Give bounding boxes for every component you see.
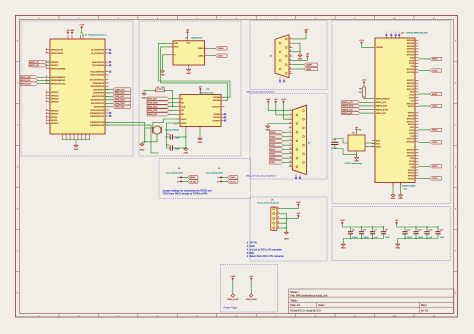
power +5V (J6) bbox=[275, 101, 277, 104]
svg-text:GPIO6: GPIO6 bbox=[408, 176, 415, 178]
svg-text:11: 11 bbox=[433, 316, 435, 318]
global label TXD0 (J1) bbox=[29, 60, 50, 63]
svg-text:SPI0_SCK: SPI0_SCK bbox=[115, 103, 126, 105]
svg-text:GPIO14/TXD: GPIO14/TXD bbox=[51, 50, 64, 52]
wires DB15 power pins bbox=[268, 103, 289, 119]
svg-text:GND: GND bbox=[341, 248, 346, 250]
section box Raspberry Pi bbox=[21, 21, 133, 156]
no-connect J1 GCLK0 bbox=[109, 71, 111, 73]
svg-text:CE1/GPIO7: CE1/GPIO7 bbox=[93, 89, 105, 91]
svg-text:TXD2: TXD2 bbox=[270, 154, 276, 156]
svg-text:GND: GND bbox=[160, 75, 165, 77]
svg-text:SMPS_INT: SMPS_INT bbox=[342, 113, 353, 115]
svg-text:+24V: +24V bbox=[230, 276, 235, 278]
svg-text:+5v: +5v bbox=[355, 127, 358, 129]
svg-text:PWR_FLAG: PWR_FLAG bbox=[227, 298, 238, 301]
svg-text:CANL: CANL bbox=[218, 54, 224, 57]
svg-text:C13: C13 bbox=[418, 230, 421, 232]
ground (U3 a) bbox=[391, 193, 395, 197]
power +24V (J2) bbox=[305, 31, 307, 34]
svg-text:GND: GND bbox=[398, 198, 403, 200]
svg-text:GPIO18: GPIO18 bbox=[407, 139, 415, 141]
svg-text:8: 8 bbox=[315, 18, 316, 20]
svg-text:INT/GPIO6: INT/GPIO6 bbox=[94, 107, 105, 109]
global label CANL (J2) bbox=[293, 67, 318, 70]
svg-text:TJA1051T3: TJA1051T3 bbox=[191, 37, 203, 40]
global label RXD3 (J6) bbox=[270, 156, 289, 159]
no-connect J1 GPIO12 bbox=[109, 112, 111, 114]
ground (J1) bbox=[74, 144, 78, 148]
global label RXD2 (J6) bbox=[270, 148, 289, 151]
svg-text:DB9_Female_MountingHoles: DB9_Female_MountingHoles bbox=[246, 90, 275, 93]
no-connect U2 CLKOUT bbox=[224, 120, 226, 122]
svg-text:SMPS_INT: SMPS_INT bbox=[376, 113, 387, 115]
global label SPI0_SDO (J1) bbox=[105, 98, 130, 101]
svg-text:Id: 1/1: Id: 1/1 bbox=[421, 308, 429, 312]
wire U1 TXD to U2 TXCAN bbox=[158, 43, 230, 97]
svg-text:GPIO32: GPIO32 bbox=[407, 52, 415, 54]
svg-text:PWM1/GPIO13: PWM1/GPIO13 bbox=[90, 116, 105, 118]
svg-text:GPIO22: GPIO22 bbox=[51, 92, 59, 94]
svg-text:9: 9 bbox=[354, 18, 355, 20]
svg-text:TX0RTS: TX0RTS bbox=[212, 120, 220, 122]
svg-text:Conn_01x02_Male: Conn_01x02_Male bbox=[206, 173, 224, 175]
svg-text:Crystal_GND24: Crystal_GND24 bbox=[165, 129, 180, 132]
wires crystal to U2 OSC bbox=[145, 119, 187, 149]
wire U3 LDOEN +3.3V bbox=[359, 40, 371, 48]
svg-text:TXD3: TXD3 bbox=[432, 178, 438, 180]
ground (U2) bbox=[198, 129, 203, 144]
svg-text:RTS2: RTS2 bbox=[409, 133, 415, 135]
svg-text:2: 2 bbox=[217, 181, 218, 183]
wire J3 ground pins bbox=[280, 214, 287, 231]
svg-text:GPIO1: GPIO1 bbox=[408, 170, 415, 172]
svg-text:5: 5 bbox=[196, 18, 197, 20]
svg-text:SPI0_SDO: SPI0_SDO bbox=[147, 102, 158, 104]
svg-text:SMPS_EN/CDT: SMPS_EN/CDT bbox=[376, 98, 391, 100]
svg-text:SDI0/GPIO9: SDI0/GPIO9 bbox=[93, 83, 105, 85]
svg-text:RXD0: RXD0 bbox=[189, 177, 195, 179]
svg-text:SMPS_SDA: SMPS_SDA bbox=[376, 105, 388, 108]
svg-text:10: 10 bbox=[290, 148, 292, 150]
svg-text:SMPS_SCL: SMPS_SCL bbox=[342, 102, 354, 104]
svg-text:GPIO26: GPIO26 bbox=[407, 72, 415, 74]
svg-text:+3.3V: +3.3V bbox=[79, 25, 85, 27]
svg-text:1: 1 bbox=[391, 32, 392, 34]
global label RXD2 (U3) bbox=[418, 128, 441, 131]
svg-text:1. Return from 24V to 5V conve: 1. Return from 24V to 5V converter bbox=[247, 255, 284, 258]
controller U2 MCP2515 bbox=[180, 94, 221, 126]
svg-text:GPIO27: GPIO27 bbox=[407, 80, 415, 82]
title block bbox=[289, 289, 454, 314]
svg-text:UART_RX: UART_RX bbox=[29, 64, 39, 67]
global label CANL bbox=[208, 54, 227, 57]
svg-text:+3.3V: +3.3V bbox=[340, 220, 346, 222]
svg-text:+3.3v: +3.3v bbox=[359, 40, 364, 42]
svg-text:SDA1/GPIO2: SDA1/GPIO2 bbox=[92, 61, 105, 64]
svg-text:TXD1: TXD1 bbox=[270, 145, 276, 147]
svg-text:C6: C6 bbox=[363, 230, 365, 232]
wires U5 bbox=[335, 131, 375, 155]
svg-text:TX_TX: TX_TX bbox=[229, 181, 236, 183]
svg-text:MOSI/GPIO10: MOSI/GPIO10 bbox=[91, 100, 105, 102]
no-connect J1 ID_SD bbox=[109, 49, 111, 51]
svg-text:TXD3: TXD3 bbox=[270, 162, 276, 164]
global label CANH (J2) bbox=[293, 63, 318, 66]
svg-text:13: 13 bbox=[290, 161, 292, 163]
ic U5 bbox=[348, 135, 365, 151]
J1 left pins bbox=[46, 48, 67, 125]
global label SPI0_SDO (J1) bbox=[21, 76, 51, 79]
no-connect U2 RX0BF bbox=[224, 113, 226, 115]
svg-text:GND: GND bbox=[284, 238, 289, 240]
svg-text:CANH: CANH bbox=[198, 47, 204, 50]
svg-text:C7: C7 bbox=[374, 230, 376, 232]
svg-text:3: 3 bbox=[118, 18, 119, 20]
wire J1 PWM pins bbox=[105, 122, 159, 152]
svg-text:RXD1: RXD1 bbox=[270, 141, 276, 143]
svg-text:TXD0: TXD0 bbox=[270, 136, 276, 138]
svg-text:LDOEN: LDOEN bbox=[376, 47, 383, 49]
svg-text:C12: C12 bbox=[407, 230, 410, 232]
svg-text:GPIO26: GPIO26 bbox=[51, 110, 59, 112]
svg-text:GPIO19: GPIO19 bbox=[407, 142, 415, 144]
svg-text:GPIO25: GPIO25 bbox=[51, 102, 59, 104]
svg-text:PWM1/GPIO19: PWM1/GPIO19 bbox=[90, 125, 105, 127]
wire J3 pin3 +5V bbox=[280, 213, 300, 218]
svg-text:SDO0/GPIO10: SDO0/GPIO10 bbox=[90, 86, 104, 88]
svg-text:CANL: CANL bbox=[198, 54, 204, 57]
svg-text:3: 3 bbox=[118, 316, 119, 318]
svg-text:4: 4 bbox=[157, 316, 158, 318]
svg-text:MODULE_GND: MODULE_GND bbox=[402, 186, 416, 188]
connector J5 Conn_01x02_Male bbox=[206, 168, 238, 184]
ground (U5) bbox=[354, 155, 359, 163]
svg-text:GPIO15/RXD: GPIO15/RXD bbox=[51, 53, 64, 55]
svg-text:SPI0_CS1: SPI0_CS1 bbox=[115, 107, 126, 109]
global label SPI0_SCK (J1) bbox=[105, 102, 130, 105]
svg-text:1: 1 bbox=[177, 177, 178, 179]
ground (U3 b) bbox=[398, 193, 402, 197]
svg-text:GPIO34: GPIO34 bbox=[407, 46, 415, 48]
ground (crystal right) bbox=[184, 147, 188, 151]
global label RXD1 (J6) bbox=[270, 139, 289, 142]
section box ESP32 MCU bbox=[332, 21, 451, 204]
svg-text:CTS0: CTS0 bbox=[409, 60, 415, 62]
svg-text:RXD0: RXD0 bbox=[270, 132, 276, 134]
global label SPI0_CS0 (J1) bbox=[105, 91, 130, 94]
svg-text:GPIO39: GPIO39 bbox=[407, 43, 415, 45]
svg-text:CLKOUT: CLKOUT bbox=[212, 107, 221, 109]
U3 right pins bbox=[407, 40, 419, 181]
svg-text:SCLK/GPIO11: SCLK/GPIO11 bbox=[91, 103, 105, 105]
svg-text:1of2: 1of2 bbox=[404, 189, 407, 191]
capacitor group C5-C8 (+3.3V) bbox=[340, 220, 391, 250]
global label SMPS_INT (U3) bbox=[342, 111, 372, 114]
svg-text:TXCAN: TXCAN bbox=[213, 96, 220, 99]
no-connect J6 mounting holes bbox=[295, 174, 301, 179]
svg-text:1: 1 bbox=[39, 316, 40, 318]
svg-text:CAN0_INT: CAN0_INT bbox=[147, 113, 158, 116]
section box power flags bbox=[221, 265, 278, 313]
ground (U1 S pin) bbox=[160, 55, 169, 77]
svg-text:GPIO22: GPIO22 bbox=[407, 152, 415, 154]
svg-text:GND: GND bbox=[184, 153, 189, 155]
svg-text:SPI0_SDI: SPI0_SDI bbox=[147, 99, 157, 101]
svg-text:STO2 3 addressing: STO2 3 addressing bbox=[345, 163, 362, 165]
global label SPI0_SDI (J1) bbox=[21, 79, 51, 82]
svg-text:PWM0/GPIO18: PWM0/GPIO18 bbox=[90, 122, 105, 124]
U3 top pins bbox=[386, 32, 400, 38]
svg-text:ID_SC/GPIO1: ID_SC/GPIO1 bbox=[91, 53, 105, 55]
svg-text:GPIO36: GPIO36 bbox=[407, 40, 415, 42]
global label SPI0_CS1 (J1) bbox=[105, 105, 130, 108]
no-connect J1 SDA1 bbox=[109, 61, 111, 63]
power +5V (J1) bbox=[67, 32, 69, 35]
svg-text:RTS0: RTS0 bbox=[409, 63, 415, 65]
global label TXD3 (U3) bbox=[418, 177, 441, 180]
svg-text:GPIO0: GPIO0 bbox=[408, 113, 415, 115]
no-connect J1 GPIO13 bbox=[109, 115, 111, 117]
power +3.3V (J6) bbox=[282, 101, 284, 104]
ground (R1) bbox=[142, 92, 146, 96]
svg-text:GND: GND bbox=[391, 198, 396, 200]
svg-text:GPIO24: GPIO24 bbox=[51, 99, 59, 101]
svg-text:SO: SO bbox=[181, 102, 184, 104]
capacitor C11 100nF bbox=[331, 139, 338, 150]
svg-text:GPIO35: GPIO35 bbox=[407, 49, 415, 51]
svg-text:GPIO2: GPIO2 bbox=[408, 106, 415, 108]
capacitor group C12-C15 (+5V) bbox=[395, 220, 445, 250]
J1 right pins bbox=[90, 50, 109, 127]
svg-text:GPIO3: GPIO3 bbox=[408, 173, 415, 175]
svg-text:TX_RX: TX_RX bbox=[189, 181, 196, 183]
svg-text:4: 4 bbox=[157, 18, 158, 20]
svg-text:SPI0_SCK: SPI0_SCK bbox=[21, 83, 32, 85]
svg-text:GPIO33: GPIO33 bbox=[407, 54, 415, 56]
svg-text:Conn_01x02_Male: Conn_01x02_Male bbox=[166, 173, 184, 175]
svg-text:GPIO21: GPIO21 bbox=[407, 149, 415, 151]
svg-text:OSC1: OSC1 bbox=[181, 119, 187, 121]
svg-text:C14: C14 bbox=[429, 230, 432, 232]
svg-text:+24V: +24V bbox=[304, 29, 309, 31]
svg-text:PWM0/GPIO12: PWM0/GPIO12 bbox=[90, 113, 105, 115]
global label RXD0 (U3) bbox=[418, 57, 441, 60]
svg-text:Title:: Title: bbox=[290, 298, 297, 302]
svg-text:SPI0_CS0: SPI0_CS0 bbox=[115, 93, 126, 95]
svg-text:CMD: CMD bbox=[376, 146, 381, 148]
svg-text:1: 1 bbox=[217, 177, 218, 179]
svg-text:SCL1/GPIO3: SCL1/GPIO3 bbox=[92, 65, 105, 67]
svg-text:C8: C8 bbox=[385, 230, 387, 232]
capacitor C4 15pF bbox=[166, 145, 180, 151]
svg-text:GPIO23: GPIO23 bbox=[407, 155, 415, 157]
svg-text:8: 8 bbox=[315, 316, 316, 318]
wire J3 pin1 +24V bbox=[280, 202, 301, 209]
svg-text:CTS1: CTS1 bbox=[409, 95, 415, 97]
svg-text:GPIO15: GPIO15 bbox=[407, 103, 415, 105]
wire U1 RXD to U2 RXCAN bbox=[161, 47, 228, 101]
svg-text:RXD2: RXD2 bbox=[270, 149, 276, 151]
section box DB9_Female_MountingHoles bbox=[250, 21, 327, 90]
svg-text:SPI0_SCK: SPI0_SCK bbox=[147, 106, 158, 108]
svg-text:RXD3: RXD3 bbox=[432, 166, 438, 168]
module U3 ESP32-WROOM-32E bbox=[375, 38, 415, 183]
connector J2 DB9 female bbox=[271, 35, 293, 78]
svg-text:TXD: TXD bbox=[174, 43, 179, 45]
svg-text:CTS2: CTS2 bbox=[409, 130, 415, 132]
svg-text:RXD: RXD bbox=[174, 47, 179, 49]
section box jumpers bbox=[159, 159, 251, 199]
global label SMPS_TXL (U3) bbox=[342, 108, 372, 111]
svg-text:1: 1 bbox=[39, 18, 40, 20]
svg-text:GCLK2/GPIO6: GCLK2/GPIO6 bbox=[90, 110, 104, 112]
connector J6 DB15 female bbox=[289, 105, 311, 174]
resistor R5 bbox=[358, 80, 371, 99]
svg-text:GND: GND bbox=[74, 149, 79, 151]
svg-text:OSC2: OSC2 bbox=[181, 123, 187, 125]
svg-text:GPIO25: GPIO25 bbox=[407, 69, 415, 71]
svg-text:Sheet: /: Sheet: / bbox=[290, 290, 299, 294]
svg-text:GPIO16: GPIO16 bbox=[51, 62, 59, 64]
power flag +5V bbox=[246, 276, 257, 301]
svg-text:RTS1: RTS1 bbox=[409, 97, 415, 99]
svg-text:2: 2 bbox=[78, 316, 79, 318]
global label SPI0_SDI (U2) bbox=[147, 97, 177, 100]
svg-text:SCK: SCK bbox=[181, 106, 186, 108]
global label SMPS_SCL (U3) bbox=[342, 101, 372, 104]
svg-text:Screw_Terminal_01x05: Screw_Terminal_01x05 bbox=[257, 202, 279, 205]
power flag +24V bbox=[227, 276, 238, 301]
global label TXD2 (J6) bbox=[270, 152, 289, 155]
no-connect J2 mounting holes bbox=[279, 77, 285, 82]
svg-text:GPIO19/MISO1: GPIO19/MISO1 bbox=[51, 77, 66, 79]
connector J4 Conn_01x02_Male bbox=[166, 168, 198, 184]
global label CAN0_INT (U2) bbox=[147, 113, 177, 116]
svg-text:GPIO14: GPIO14 bbox=[407, 83, 415, 85]
section box DB15_Female_MountingHoles bbox=[250, 94, 327, 180]
svg-text:R6: R6 bbox=[359, 130, 361, 132]
svg-text:6: 6 bbox=[236, 316, 237, 318]
svg-text:GPIO4: GPIO4 bbox=[408, 115, 415, 117]
svg-text:SMPS_SCL: SMPS_SCL bbox=[376, 102, 388, 104]
wire DB15 ground pin bbox=[268, 124, 289, 125]
global label TXD0 (U3) bbox=[418, 69, 441, 72]
svg-text:RXD2: RXD2 bbox=[432, 130, 438, 132]
svg-text:6: 6 bbox=[236, 18, 237, 20]
svg-text:GND: GND bbox=[198, 142, 203, 144]
global label SPI0_SCK (U2) bbox=[147, 105, 177, 108]
svg-text:RXCAN: RXCAN bbox=[213, 99, 221, 102]
power +5V (U5) bbox=[355, 129, 357, 132]
svg-text:2: 2 bbox=[78, 18, 79, 20]
transceiver U1 TJA1051T3 bbox=[173, 41, 205, 65]
svg-text:11: 11 bbox=[433, 18, 435, 20]
U2 pins bbox=[177, 91, 225, 130]
svg-text:SPI0_CS0: SPI0_CS0 bbox=[147, 110, 158, 112]
svg-text:ESP32-WROOM-32D: ESP32-WROOM-32D bbox=[407, 33, 429, 35]
ground (J6) bbox=[266, 125, 270, 129]
svg-text:GPIO12: GPIO12 bbox=[407, 86, 415, 88]
ground (J3) bbox=[284, 231, 288, 235]
global label TXD1 (J6) bbox=[270, 144, 289, 147]
svg-text:C15: C15 bbox=[440, 230, 443, 232]
svg-text:Raspberry_Pi_2_3: Raspberry_Pi_2_3 bbox=[89, 33, 108, 36]
svg-text:12: 12 bbox=[290, 157, 292, 159]
svg-text:11: 11 bbox=[290, 152, 292, 154]
ground (U1) bbox=[186, 68, 191, 75]
no-connect U3 top pins bbox=[385, 34, 400, 36]
global label RXD0 (J1) bbox=[29, 64, 50, 67]
svg-text:+3.3v: +3.3v bbox=[362, 80, 367, 82]
global label RXD1 (U3) bbox=[418, 92, 441, 95]
wire DB9 pin1 to +24V bbox=[293, 34, 307, 39]
no-connect J1 SCL1 bbox=[109, 64, 111, 66]
svg-text:7: 7 bbox=[275, 18, 276, 20]
global label SPI0_SDI (J1) bbox=[105, 95, 130, 98]
global label SPI0_SDO (U2) bbox=[147, 101, 177, 104]
J1 top power pins bbox=[68, 29, 84, 39]
svg-text:File: RPiCanBreakout.kicad_sch: File: RPiCanBreakout.kicad_sch bbox=[290, 293, 328, 297]
svg-text:Rev:: Rev: bbox=[421, 303, 427, 307]
svg-text:GPIO21/SCLK1: GPIO21/SCLK1 bbox=[51, 83, 66, 85]
svg-text:14: 14 bbox=[290, 165, 292, 167]
svg-text:10: 10 bbox=[393, 18, 395, 20]
svg-text:CAN0_INT: CAN0_INT bbox=[115, 88, 126, 91]
svg-text:CANH: CANH bbox=[306, 64, 312, 67]
ground (J2) bbox=[298, 54, 302, 58]
svg-text:SCLK0/GPIO11: SCLK0/GPIO11 bbox=[90, 80, 105, 82]
svg-text:GND: GND bbox=[395, 248, 400, 250]
ground (J1 PWM) bbox=[140, 142, 144, 146]
svg-text:PWR_FLAG: PWR_FLAG bbox=[246, 298, 257, 301]
svg-text:GPIO5: GPIO5 bbox=[408, 124, 415, 126]
svg-text:7: 7 bbox=[275, 316, 276, 318]
connector J3 Screw_Terminal_01x05 bbox=[257, 199, 280, 230]
svg-text:MISO/GPIO9: MISO/GPIO9 bbox=[92, 96, 105, 98]
svg-text:GPIO13: GPIO13 bbox=[407, 89, 415, 91]
global label TXD3 (J6) bbox=[270, 161, 289, 164]
J1 bottom ground pins bbox=[62, 134, 90, 144]
svg-text:TXD0 from DB15 directly to TX/: TXD0 from DB15 directly to TX/RX of RPi. bbox=[162, 193, 208, 196]
svg-text:RTS3: RTS3 bbox=[409, 164, 415, 166]
section box CAN controller bbox=[139, 21, 241, 156]
svg-text:GPIO17: GPIO17 bbox=[407, 121, 415, 123]
svg-text:5: 5 bbox=[196, 316, 197, 318]
svg-text:GPIO23: GPIO23 bbox=[51, 95, 59, 97]
svg-text:GCLK0/GPIO4: GCLK0/GPIO4 bbox=[90, 72, 104, 74]
wire DB9 to +5V bbox=[293, 54, 310, 61]
svg-text:SMPS_TXL: SMPS_TXL bbox=[342, 109, 354, 111]
no-connect U2 RX1BF bbox=[224, 116, 226, 118]
resistor R1 bbox=[144, 87, 173, 107]
svg-text:SPI0_SDO: SPI0_SDO bbox=[115, 100, 126, 102]
global label TXD1 (U3) bbox=[418, 104, 441, 107]
svg-text:15pF: 15pF bbox=[175, 149, 180, 151]
svg-text:GPIO20/MOSI1: GPIO20/MOSI1 bbox=[51, 80, 66, 82]
svg-text:GPIO5: GPIO5 bbox=[51, 117, 58, 119]
connector J1 Raspberry_Pi_2_3 bbox=[50, 39, 105, 134]
no-connect J1 ID_SC bbox=[109, 52, 111, 54]
svg-text:2: 2 bbox=[177, 181, 178, 183]
svg-text:GPIO7: GPIO7 bbox=[408, 178, 415, 180]
svg-text:GND: GND bbox=[142, 97, 147, 99]
power +5V (U1) bbox=[186, 30, 190, 38]
svg-text:RX0BF: RX0BF bbox=[213, 114, 220, 116]
svg-text:KiCad E.D.A. kicad (6.0.2): KiCad E.D.A. kicad (6.0.2) bbox=[290, 308, 320, 312]
wires DB9 ground pins bbox=[293, 43, 301, 53]
svg-text:SPI0_SDI: SPI0_SDI bbox=[115, 96, 125, 98]
